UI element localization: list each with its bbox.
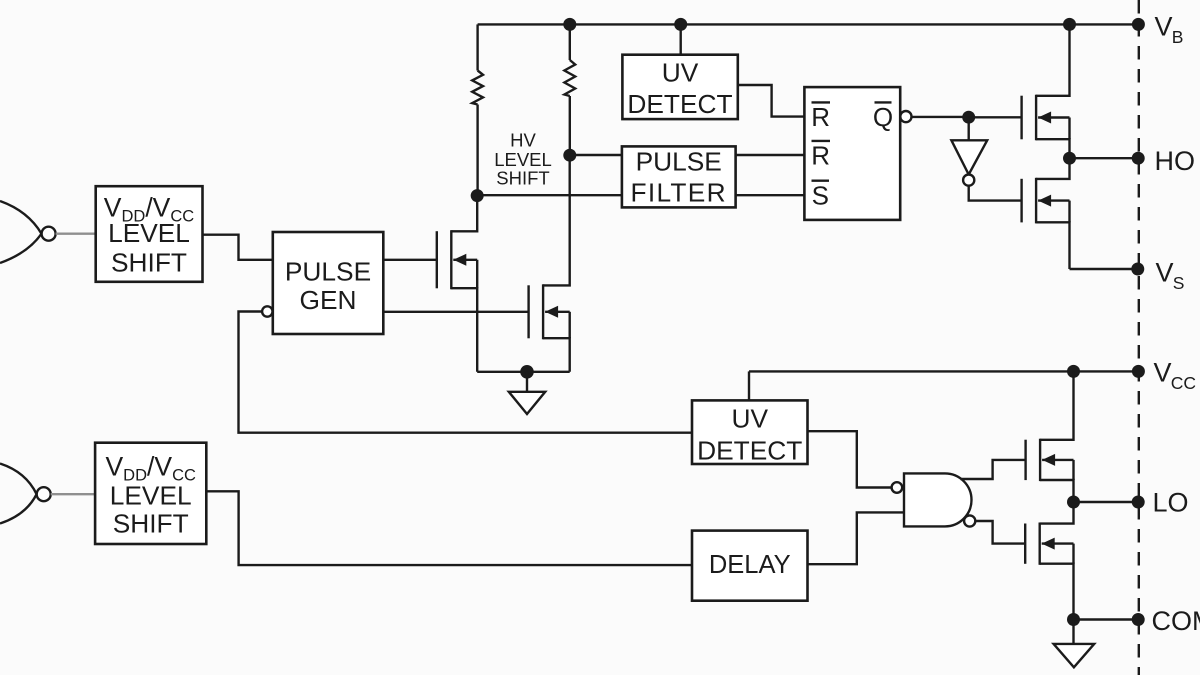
wire U10 output to Q5 gate [961, 460, 1026, 479]
node rail-Q3 junction [1063, 18, 1076, 31]
label HV LEVEL SHIFT [494, 130, 552, 189]
svg-text:V: V [1155, 12, 1173, 42]
node rail-R2 junction [563, 18, 576, 31]
wire G1 output to U1 [56, 232, 96, 234]
node Q1-Q2 source junction [520, 365, 534, 379]
node Q-bar junction [962, 111, 975, 124]
block U2 PULSE GEN [273, 232, 384, 334]
svg-text:S: S [1173, 273, 1185, 293]
svg-text:B: B [1172, 27, 1184, 47]
G2 output bubble [37, 487, 51, 501]
svg-text:Q: Q [873, 102, 893, 132]
terminal HO [1132, 146, 1195, 176]
block U3 UV DETECT (high side) [622, 55, 737, 119]
wire R2 node to U4 R-input [570, 154, 622, 156]
node LO junction [1067, 496, 1080, 509]
transistor Q4 (HO pull-down) [1022, 158, 1070, 269]
wire U2 output 2 to Q2 gate [383, 311, 528, 313]
inverter U7 [951, 117, 987, 174]
wire U7 output to Q4 gate [969, 186, 1022, 201]
U7 output bubble [963, 175, 974, 186]
svg-text:GEN: GEN [300, 285, 357, 315]
svg-text:V: V [1154, 358, 1172, 388]
G1 output bubble [42, 227, 56, 241]
wire COM node to terminal [1074, 618, 1139, 620]
svg-text:CC: CC [1171, 373, 1196, 393]
svg-text:V: V [1156, 258, 1174, 288]
wire VCC rail [749, 370, 1138, 372]
svg-text:SHIFT: SHIFT [496, 167, 549, 188]
wire COM node to ground [1072, 620, 1074, 644]
gate U10 output AND [904, 473, 972, 526]
resistor R1 [472, 24, 483, 195]
resistor R2 [564, 24, 575, 155]
block U6 UV DETECT (low side) [692, 400, 808, 465]
wire U2 inhibit feedback to U6 [239, 312, 693, 433]
wire U1 output to U2 input [203, 235, 273, 260]
wire U3 output to U5 R1 input [738, 85, 805, 117]
wire Q4 source to VS terminal [1070, 268, 1139, 270]
svg-text:S: S [812, 180, 829, 210]
block U4 PULSE FILTER [622, 146, 736, 207]
svg-text:SHIFT: SHIFT [113, 509, 189, 539]
terminal COM [1132, 606, 1200, 636]
terminal VB [1132, 12, 1184, 48]
svg-text:DELAY: DELAY [709, 551, 791, 579]
svg-text:HV: HV [510, 130, 536, 151]
svg-text:R: R [811, 102, 830, 132]
wire HO node to terminal [1070, 157, 1139, 159]
wire U9 output to U10 input B [808, 512, 905, 564]
wire U5 output to inverter node [912, 116, 969, 118]
node COM junction [1067, 613, 1080, 626]
wire G2 output to U8 [51, 493, 95, 495]
wire LO node to terminal [1074, 501, 1139, 503]
svg-text:LEVEL: LEVEL [110, 481, 192, 511]
svg-text:SHIFT: SHIFT [111, 248, 187, 278]
node rail-Q5 junction [1067, 365, 1080, 378]
transistor Q2 (HV level shift, right) [529, 155, 570, 372]
wire node to Q3 gate [969, 116, 1022, 118]
node rail-U3 junction [674, 18, 687, 31]
wire Q1/Q2 common source [477, 371, 570, 373]
wire U6 output to U10 input A [808, 431, 892, 487]
svg-text:DETECT: DETECT [627, 89, 732, 119]
U10 inverted output bubble [964, 515, 975, 526]
node R2 bottom junction [563, 149, 576, 162]
IC boundary dashed line [1138, 0, 1140, 675]
terminal VS [1131, 258, 1184, 294]
svg-text:LO: LO [1153, 488, 1189, 518]
node R1 bottom junction [471, 189, 484, 202]
svg-text:LEVEL: LEVEL [108, 218, 190, 248]
svg-text:HO: HO [1155, 146, 1196, 176]
wire R1 node to U4 S-input [477, 194, 622, 196]
wire rail to U3 [680, 24, 682, 54]
svg-text:PULSE: PULSE [285, 257, 371, 287]
wire source node to ground [526, 372, 528, 392]
terminal LO [1132, 488, 1189, 518]
block U9 DELAY [692, 531, 808, 601]
svg-text:PULSE: PULSE [636, 147, 722, 177]
wire U4 output 1 to U5 R2 input [736, 154, 805, 156]
wire U8 output to U9 DELAY [206, 491, 692, 565]
svg-text:FILTER: FILTER [630, 178, 726, 208]
svg-text:UV: UV [662, 57, 699, 87]
svg-text:R: R [811, 140, 830, 170]
ground symbol (COM) [1054, 644, 1095, 667]
block U1 VDD/VCC LEVEL SHIFT (high side) [96, 186, 203, 282]
wire U6 top to VCC rail [748, 371, 750, 400]
svg-text:DETECT: DETECT [697, 436, 802, 466]
ground symbol (HV level shift) [509, 392, 545, 414]
svg-text:COM: COM [1152, 606, 1200, 636]
input logic gate G1 (clipped at left edge) [0, 201, 42, 263]
U5 Q-bar output bubble [900, 111, 911, 122]
transistor Q6 (LO pull-down) [1025, 502, 1073, 620]
wire U10 inverted output to Q6 gate [975, 521, 1025, 544]
block U8 VDD/VCC LEVEL SHIFT (low side) [95, 443, 206, 544]
transistor Q5 (LO pull-up) [1026, 371, 1074, 502]
terminal VCC [1132, 358, 1196, 394]
svg-text:UV: UV [731, 404, 768, 434]
node HO junction [1063, 152, 1076, 165]
block U5 SR latch [804, 87, 900, 220]
input logic gate G2 (clipped at left edge) [0, 464, 37, 524]
wire U2 output 1 to Q1 gate [383, 259, 437, 261]
U10 input A bubble [892, 482, 903, 493]
transistor Q3 (HO pull-up) [1022, 24, 1070, 158]
U2 inhibit input bubble [262, 306, 272, 316]
wire U4 output 2 to U5 S input [736, 194, 805, 196]
transistor Q1 (HV level shift, left) [437, 196, 477, 372]
wire VB top rail [478, 23, 1139, 25]
